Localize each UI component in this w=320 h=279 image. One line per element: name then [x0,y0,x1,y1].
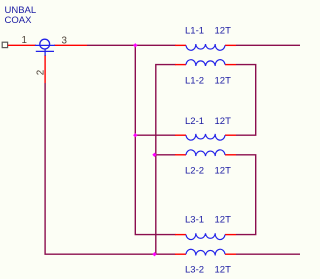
inductor L2-2 [175,150,236,177]
svg-text:3: 3 [62,35,68,46]
wire port to connector (red) [8,44,36,46]
svg-text:L2-1: L2-1 [185,116,204,127]
coax connector J1 [35,39,55,56]
junction node mid bus / L2-2 [152,153,156,157]
inductor L3-2 [175,249,236,275]
svg-text:2: 2 [35,70,46,75]
port terminal P1 [2,42,7,47]
svg-text:L1-1: L1-1 [185,26,204,37]
svg-text:COAX: COAX [5,15,33,26]
wire left bus to L2-1 [135,134,175,136]
inductor L1-2 [175,60,236,87]
svg-text:12T: 12T [215,116,232,127]
svg-text:L1-2: L1-2 [185,75,204,86]
wire mid bus to L2-2 [156,154,176,156]
right bus 2 (L2-2 right to L3-1 right) [236,155,256,235]
svg-text:12T: 12T [215,165,232,176]
svg-text:12T: 12T [215,26,232,37]
junction node mid bus / bottom wire [152,252,156,256]
svg-text:L3-1: L3-1 [185,215,204,226]
junction node top wire / left bus [133,43,137,47]
wire connector pin3 stub (red) [54,44,87,46]
mid bus wire (L1-2 left, down to bottom) [156,65,176,255]
svg-text:L2-2: L2-2 [185,165,204,176]
svg-text:12T: 12T [215,215,232,226]
right bus 1 (L1-2 right to L2-1 right) [236,65,256,136]
inductor L2-1 [175,116,236,140]
wire top net to right edge [87,44,176,46]
svg-text:12T: 12T [215,75,232,86]
svg-text:L3-2: L3-2 [185,265,204,276]
inductor L1-1 [175,26,236,51]
svg-text:12T: 12T [215,265,232,276]
wire L3-2 right to edge [236,253,300,255]
wire pin2 stub (red vertical) [44,55,46,83]
junction node left bus / L2-1 [133,133,137,137]
left bus wire (top net down to L3-1) [135,45,175,234]
net label UNBAL COAX [5,5,37,26]
svg-text:1: 1 [22,35,27,46]
wire pin2 down and along bottom to L3-2 [45,83,175,254]
inductor L3-1 [175,215,236,240]
